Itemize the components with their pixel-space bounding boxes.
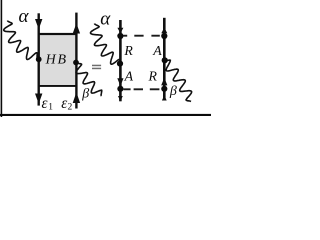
photon wavy line alpha (left diagram) xyxy=(4,21,39,60)
vertex dot left line upper xyxy=(117,33,123,39)
wire fermion line left of ladder (down-going) xyxy=(38,13,40,105)
photon wavy line beta (right diagram) xyxy=(164,60,191,101)
svg-text:R: R xyxy=(148,69,158,84)
equals sign bottom bar xyxy=(92,68,101,70)
vertex dot right line photon xyxy=(162,57,168,63)
wire particle line left (right diagram) xyxy=(119,20,122,101)
svg-text:β: β xyxy=(169,84,177,99)
arrow on left line bottom end xyxy=(118,96,123,101)
arrow on left line above lower vertex xyxy=(117,78,123,86)
dashed interaction line lower, dash 3 xyxy=(150,88,160,90)
frame left border xyxy=(1,0,3,117)
photon wavy line alpha (right diagram) xyxy=(91,24,121,65)
dashed interaction line upper, dash 1 xyxy=(123,35,127,37)
wire particle line right (right diagram) xyxy=(163,18,166,101)
svg-text:2: 2 xyxy=(68,103,73,113)
wire fermion line right of ladder (up-going) xyxy=(75,13,77,109)
frame bottom border xyxy=(0,114,211,116)
equals sign top bar xyxy=(92,65,101,67)
shaded block HB fill xyxy=(39,33,77,87)
vertex dot right line upper xyxy=(161,33,167,39)
block HB top edge xyxy=(38,33,78,35)
arrow on right line above lower vertex xyxy=(161,78,167,86)
block HB bottom edge xyxy=(38,85,78,87)
vertex dot on right line xyxy=(73,60,79,66)
dashed interaction line lower, dash 1 xyxy=(123,88,130,90)
vertex dot left line lower xyxy=(117,86,123,92)
arrow down on left line top segment xyxy=(35,19,42,29)
svg-text:A: A xyxy=(124,68,134,83)
svg-text:HB: HB xyxy=(45,52,68,67)
vertex dot right line lower xyxy=(161,86,167,92)
dashed interaction line upper, dash 2 xyxy=(134,35,143,37)
dashed interaction line lower, dash 2 xyxy=(134,88,143,90)
dashed interaction line upper, dash 3 xyxy=(151,35,159,37)
arrow down on left line bottom segment xyxy=(35,94,42,104)
arrow up on right line top segment xyxy=(73,23,80,33)
svg-text:A: A xyxy=(152,43,162,58)
svg-text:α: α xyxy=(19,6,30,27)
vertex dot on left line xyxy=(36,56,42,62)
svg-text:1: 1 xyxy=(48,103,53,113)
arrow on right line above upper vertex xyxy=(161,28,167,34)
svg-text:R: R xyxy=(123,43,133,58)
arrow up on right line bottom segment xyxy=(73,92,80,103)
photon wavy line beta (left diagram) xyxy=(76,63,102,97)
arrow on right line bottom end xyxy=(162,95,167,100)
svg-text:β: β xyxy=(81,86,89,101)
arrow on left line above upper vertex xyxy=(117,28,123,34)
svg-text:α: α xyxy=(100,9,111,30)
vertex dot left line photon xyxy=(117,61,123,67)
